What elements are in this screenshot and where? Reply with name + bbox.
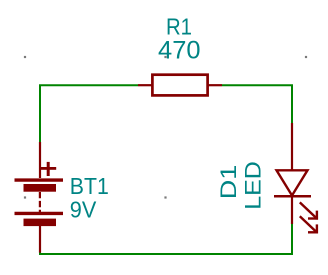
battery BT1 positive plate cell 2 <box>15 212 64 215</box>
battery BT1 positive plate cell 1 <box>15 178 64 181</box>
svg-text:LED: LED <box>241 161 266 210</box>
battery BT1 pin top (+) <box>39 142 41 178</box>
resistor R1 lead right (pin 2) <box>207 84 222 86</box>
svg-text:BT1: BT1 <box>70 173 109 199</box>
LED D1 pin top (anode) <box>291 123 293 171</box>
svg-text:R1: R1 <box>166 14 192 40</box>
grid dot (306,57) <box>305 56 307 58</box>
wire top-left: node R1.1 to BT1.+ <box>40 85 138 142</box>
svg-text:D1: D1 <box>216 165 241 200</box>
grid dot (165.5,57) <box>164 56 166 58</box>
svg-text:470: 470 <box>158 37 201 65</box>
grid dot (165.5,197.5) <box>164 196 166 198</box>
battery BT1 dashed cell link <box>39 192 41 212</box>
resistor R1 lead left (pin 1) <box>138 84 153 86</box>
grid dot (25,57) <box>24 56 26 58</box>
LED D1 pin bottom (cathode) <box>291 196 293 224</box>
grid dot (25,197.5) <box>24 196 26 198</box>
resistor R1 body <box>152 75 207 96</box>
battery BT1 negative plate cell 1 <box>24 184 57 192</box>
LED D1 cathode bar <box>274 195 311 198</box>
LED D1 emission arrow 1 <box>300 202 318 219</box>
battery BT1 negative plate cell 2 <box>24 219 57 227</box>
wire bottom: D1 cathode to BT1.- <box>40 224 292 254</box>
LED D1 triangle <box>277 170 308 195</box>
wire top-right: node R1.2 to D1 anode <box>222 85 292 123</box>
battery BT1 pin bottom (-) <box>39 226 41 253</box>
svg-text:9V: 9V <box>70 197 97 223</box>
LED D1 emission arrow 2 <box>300 216 318 233</box>
battery BT1 plus sign <box>41 167 57 170</box>
